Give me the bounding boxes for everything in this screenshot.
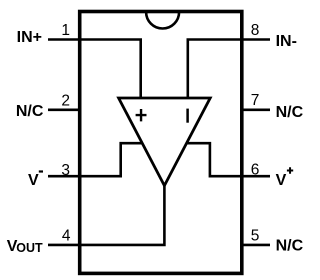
op-amp plus (noninverting) marker (136, 109, 147, 121)
svg-text:N/C: N/C (16, 103, 44, 120)
svg-text:N/C: N/C (276, 104, 304, 121)
svg-text:5: 5 (251, 227, 260, 244)
svg-text:6: 6 (251, 162, 260, 179)
svg-text:1: 1 (61, 22, 70, 39)
IC package U1 (8-pin DIP body) (80, 12, 242, 274)
svg-text:V: V (28, 172, 39, 189)
wire pin6 V+ to op-amp right side (183, 143, 270, 176)
svg-text:OUT: OUT (16, 241, 43, 255)
svg-text:V: V (276, 172, 287, 189)
wire pin4 VOUT to op-amp output apex (48, 181, 164, 245)
svg-text:4: 4 (62, 228, 71, 245)
wire pin8 IN- to op-amp inverting input (188, 40, 270, 99)
op-amp A1 (triangle, output pointing down) (119, 98, 211, 186)
wire pin5 N/C stub (241, 244, 271, 247)
svg-text:IN-: IN- (276, 33, 297, 50)
wire pin3 V- to op-amp left side (48, 143, 146, 176)
pin-1 notch (index semicircle) (146, 12, 179, 29)
svg-text:7: 7 (251, 92, 260, 109)
svg-text:8: 8 (251, 22, 260, 39)
wire pin1 IN+ to op-amp noninverting input (48, 40, 141, 99)
svg-text:2: 2 (61, 92, 70, 109)
op-amp minus (inverting) marker (186, 109, 189, 123)
wire pin2 N/C stub (48, 109, 81, 112)
svg-text:3: 3 (61, 162, 70, 179)
wire pin7 N/C stub (241, 109, 271, 112)
svg-text:IN+: IN+ (17, 29, 42, 46)
svg-text:N/C: N/C (276, 238, 304, 255)
